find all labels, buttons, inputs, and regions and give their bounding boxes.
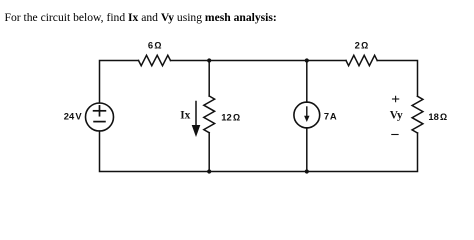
svg-text:Ix: Ix	[180, 109, 190, 121]
junction dot bottom-left node	[207, 169, 211, 173]
wire top-middle segment	[171, 60, 347, 62]
wire middle branch 12Ω top	[208, 61, 210, 97]
svg-text:18 Ω: 18 Ω	[428, 111, 447, 122]
voltage source V1 plus sign	[94, 106, 106, 116]
wire top-left segment	[100, 61, 139, 104]
wire current source branch bottom	[306, 128, 308, 172]
resistor R2 2Ω zigzag	[346, 55, 377, 65]
Vy minus sign	[392, 134, 398, 136]
wire left-bottom segment	[100, 131, 210, 172]
wire middle branch 12Ω bottom	[208, 133, 210, 172]
voltage source V1 minus sign	[94, 121, 105, 123]
svg-text:Vy: Vy	[390, 110, 403, 122]
svg-text:24 V: 24 V	[64, 111, 83, 122]
resistor R4 18Ω zigzag	[412, 96, 423, 133]
wire top-right segment	[377, 61, 417, 97]
current source I1 circle	[294, 102, 320, 128]
Vy plus sign	[393, 96, 399, 101]
wire bottom middle segment	[209, 171, 307, 173]
current source I1 arrow	[304, 107, 309, 122]
svg-text:7 A: 7 A	[324, 110, 337, 121]
resistor R3 12Ω zigzag	[204, 96, 215, 133]
voltage source V1 circle	[86, 103, 114, 131]
wire current source branch top	[306, 61, 308, 103]
resistor R1 6Ω zigzag	[139, 55, 171, 65]
junction dot bottom-right node	[305, 169, 309, 173]
current arrow Ix	[192, 102, 201, 138]
svg-text:2 Ω: 2 Ω	[355, 40, 369, 51]
wire right-bottom segment	[307, 133, 418, 172]
junction dot top-left node	[207, 58, 211, 62]
svg-text:6 Ω: 6 Ω	[148, 39, 162, 50]
junction dot top-right node	[305, 58, 309, 62]
svg-text:12 Ω: 12 Ω	[221, 112, 240, 123]
title text	[5, 12, 277, 24]
